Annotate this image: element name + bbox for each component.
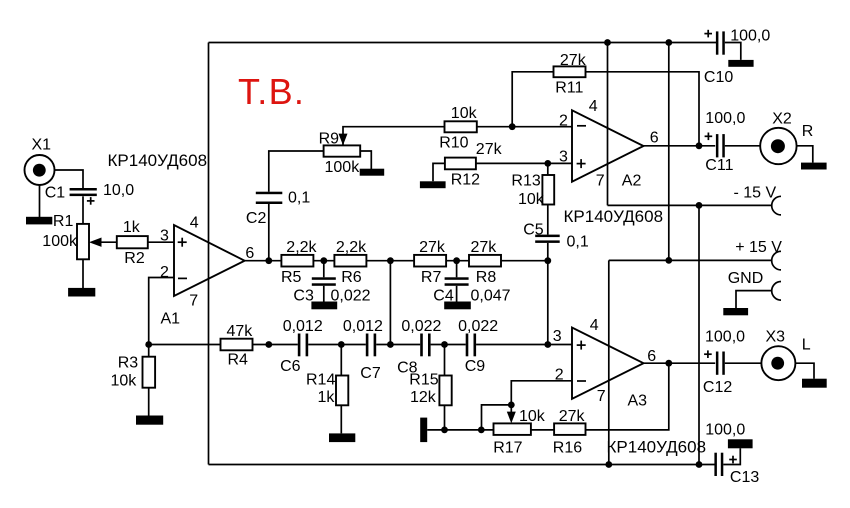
svg-text:7: 7 xyxy=(189,293,198,310)
svg-text:27k: 27k xyxy=(476,141,503,158)
wire R11 left to pin 2 node xyxy=(512,72,553,127)
svg-text:R13: R13 xyxy=(511,172,540,189)
capacitor C7 xyxy=(343,318,383,382)
junction -15V rail / C13 node xyxy=(696,461,703,468)
junction top rail / +15V branch xyxy=(665,39,672,46)
junction R17 wiper / A3 pin2 xyxy=(508,402,515,409)
resistor R13 xyxy=(511,172,554,208)
svg-text:4: 4 xyxy=(190,215,199,232)
svg-text:R11: R11 xyxy=(555,80,583,97)
svg-text:Т.В.: Т.В. xyxy=(238,71,305,112)
wire R17 to R16 xyxy=(531,429,554,431)
svg-text:- 15 V: - 15 V xyxy=(734,185,777,202)
svg-text:10,0: 10,0 xyxy=(103,182,134,199)
junction -15V line xyxy=(696,202,703,209)
wire C5 to upper chain node xyxy=(547,243,549,261)
ground X3 xyxy=(802,379,827,388)
wire R2 to A1 pin 3 xyxy=(148,241,174,243)
op-amp A2 xyxy=(559,98,659,189)
resistor R3 xyxy=(111,355,156,390)
ground X2 xyxy=(801,163,827,170)
svg-text:7: 7 xyxy=(597,388,606,405)
junction upper chain mid node xyxy=(387,257,394,264)
svg-text:100,0: 100,0 xyxy=(705,329,745,346)
svg-text:R1: R1 xyxy=(53,213,74,230)
wire C7 to C8 xyxy=(376,344,420,346)
svg-text:R10: R10 xyxy=(439,135,468,152)
wire node A1 out to C2 xyxy=(268,204,270,261)
svg-text:0,1: 0,1 xyxy=(567,233,589,250)
resistor R12 xyxy=(445,141,503,189)
wire C1 to R1 xyxy=(82,196,84,224)
junction R5-R6 / C3 node xyxy=(320,257,327,264)
svg-text:C1: C1 xyxy=(45,185,66,202)
svg-text:+ 15 V: + 15 V xyxy=(735,239,782,256)
connector -15V xyxy=(734,185,782,215)
wire A2 pin4 pin7 vertical xyxy=(607,43,609,206)
svg-text:0,047: 0,047 xyxy=(471,288,511,305)
junction C6-C7 / R14 node xyxy=(338,341,345,348)
wire R5 to R6 xyxy=(313,260,334,262)
svg-text:0,022: 0,022 xyxy=(401,318,441,335)
svg-text:2,2k: 2,2k xyxy=(336,239,367,256)
svg-text:0,012: 0,012 xyxy=(283,318,323,335)
svg-text:КР140УД608: КР140УД608 xyxy=(607,437,707,456)
wire A2 output to C11 xyxy=(644,145,716,147)
svg-text:100k: 100k xyxy=(325,159,361,176)
wire A3 pin4 pin7 vertical xyxy=(608,260,610,464)
junction R17 left terminal xyxy=(478,427,485,434)
op-amp A1 xyxy=(160,215,254,328)
wire R17 wiper tie xyxy=(482,405,512,430)
capacitor C1 xyxy=(45,182,135,205)
svg-text:10k: 10k xyxy=(111,373,138,390)
capacitor C8 xyxy=(397,318,441,377)
wire C6 to C7 xyxy=(308,344,366,346)
ground C3 xyxy=(311,302,337,310)
wire R3 to ground xyxy=(148,345,150,416)
wire C5 R13 vertical xyxy=(547,163,549,234)
capacitor C10 xyxy=(704,28,770,86)
resistor R14 xyxy=(306,371,348,406)
wire R2 to R1 wiper xyxy=(101,241,117,243)
wire upper chain node to A3 pin3 node xyxy=(547,261,549,345)
connector +15V xyxy=(735,239,782,270)
junction C7-C8 mid node xyxy=(387,341,394,348)
potentiometer R1 xyxy=(42,213,101,259)
svg-text:47k: 47k xyxy=(227,323,254,340)
capacitor C2 xyxy=(246,190,310,227)
svg-text:R2: R2 xyxy=(124,250,145,267)
wire R16 to A3 output xyxy=(586,363,669,430)
svg-text:A2: A2 xyxy=(622,172,642,189)
svg-text:R3: R3 xyxy=(118,355,139,372)
svg-text:10k: 10k xyxy=(451,105,478,122)
svg-text:100k: 100k xyxy=(42,233,78,250)
capacitor C11 xyxy=(705,110,746,174)
svg-text:C7: C7 xyxy=(360,365,381,382)
ground C4 xyxy=(444,302,471,310)
connector GND xyxy=(728,270,781,300)
wire C4 to ground xyxy=(456,286,458,302)
wire X3 to ground xyxy=(795,363,814,379)
svg-text:100,0: 100,0 xyxy=(705,422,745,439)
ground R1 xyxy=(68,288,95,297)
svg-text:4: 4 xyxy=(590,317,599,334)
svg-text:C2: C2 xyxy=(246,210,267,227)
svg-text:GND: GND xyxy=(728,270,764,287)
wire ground bar to R17 feedback line xyxy=(427,429,493,431)
junction A1 output / C2 node xyxy=(265,257,272,264)
wire C3 to ground xyxy=(323,286,325,302)
wire -15V rail down xyxy=(698,205,700,464)
svg-text:R16: R16 xyxy=(553,439,582,456)
capacitor C3 xyxy=(293,277,370,304)
svg-text:R12: R12 xyxy=(451,171,480,188)
svg-text:0,012: 0,012 xyxy=(343,318,383,335)
wire X1 to ground xyxy=(39,185,41,217)
svg-text:0,1: 0,1 xyxy=(288,190,310,207)
wire lower chain R4 to C6 xyxy=(149,344,298,346)
wire upper chain to lower chain xyxy=(389,261,391,345)
svg-text:C9: C9 xyxy=(465,358,486,375)
connector X2 xyxy=(760,110,813,164)
svg-text:0,022: 0,022 xyxy=(458,318,498,335)
resistor R11 xyxy=(554,52,587,97)
wire GND connector to ground xyxy=(736,291,772,308)
wire X2 to ground xyxy=(796,146,812,163)
wire R6 to R7 xyxy=(366,260,414,262)
resistor R4 xyxy=(221,323,254,368)
junction A1 pin2 / R3 node xyxy=(145,341,152,348)
svg-text:C11: C11 xyxy=(705,157,733,174)
wire C4 branch xyxy=(456,261,458,278)
ground R3 xyxy=(136,416,163,425)
junction C9 / A3 pin3 node xyxy=(544,341,551,348)
wire C11 to X2 xyxy=(725,145,761,147)
wire R7 to R8 xyxy=(446,260,469,262)
svg-text:27k: 27k xyxy=(559,408,586,425)
svg-text:L: L xyxy=(802,336,811,353)
resistor R7 xyxy=(414,239,446,286)
capacitor C13 xyxy=(705,422,759,486)
junction A3 pin7 / -15V rail xyxy=(605,461,612,468)
junction A3 output / R16 feedback xyxy=(665,360,672,367)
resistor R5 xyxy=(281,239,318,286)
junction C8-C9 / R15 node xyxy=(441,341,448,348)
svg-text:10k: 10k xyxy=(518,191,545,208)
svg-text:R: R xyxy=(802,123,814,140)
svg-text:1k: 1k xyxy=(318,389,336,406)
junction +15V line xyxy=(665,257,672,264)
ground GND connector xyxy=(723,308,748,315)
connector X1 xyxy=(25,137,55,185)
svg-text:X1: X1 xyxy=(32,137,52,154)
wire C12 to X3 xyxy=(725,362,762,364)
ground R12 xyxy=(420,181,446,188)
svg-text:КР140УД608: КР140УД608 xyxy=(564,207,664,226)
wire C2 to R9 xyxy=(269,151,324,192)
ground C13 xyxy=(728,439,753,448)
wire R14 to ground xyxy=(340,345,342,434)
svg-text:27k: 27k xyxy=(419,239,446,256)
junction A2 output / R11 feedback xyxy=(696,142,703,149)
junction R7-R8 / C4 node xyxy=(453,257,460,264)
potentiometer R9 xyxy=(319,131,361,176)
svg-text:2,2k: 2,2k xyxy=(286,239,317,256)
svg-text:R6: R6 xyxy=(341,269,362,286)
wire C9 to A3 pin 3 xyxy=(476,344,572,346)
svg-text:C13: C13 xyxy=(730,469,759,486)
junction R15 bottom node xyxy=(441,427,448,434)
wire +15V line xyxy=(609,259,772,261)
capacitor C12 xyxy=(703,329,745,397)
svg-text:4: 4 xyxy=(589,98,598,115)
svg-text:A1: A1 xyxy=(161,311,181,328)
svg-text:R7: R7 xyxy=(421,269,442,286)
svg-text:27k: 27k xyxy=(560,52,587,69)
svg-text:R14: R14 xyxy=(306,371,335,388)
svg-text:C12: C12 xyxy=(703,379,732,396)
capacitor C4 xyxy=(433,277,510,304)
ground C10 xyxy=(728,60,753,67)
ground X1 xyxy=(26,217,52,225)
wire R17 wiper to A3 pin 2 xyxy=(511,381,572,405)
wire R1 to ground xyxy=(82,259,84,288)
svg-text:C5: C5 xyxy=(523,222,544,239)
svg-text:6: 6 xyxy=(650,130,659,147)
wire X1 to C1 xyxy=(55,170,84,189)
svg-text:X3: X3 xyxy=(766,328,786,345)
ground R9 xyxy=(360,169,385,176)
wire A1 output to R5 xyxy=(245,260,282,262)
resistor R8 xyxy=(469,239,501,286)
resistor R2 xyxy=(117,219,148,267)
svg-text:R15: R15 xyxy=(409,371,438,388)
junction A2 pin2 / R11 node xyxy=(509,123,516,130)
svg-text:X2: X2 xyxy=(772,110,792,127)
svg-text:6: 6 xyxy=(245,245,254,262)
wire +15V vertical from top rail xyxy=(668,43,670,261)
ground bar vertical at R17 line xyxy=(420,418,427,443)
svg-text:100,0: 100,0 xyxy=(730,28,770,45)
capacitor C6 xyxy=(280,318,323,375)
svg-text:27k: 27k xyxy=(471,239,498,256)
ground R14 xyxy=(329,433,355,442)
wire C10 to ground xyxy=(725,43,741,60)
svg-text:1k: 1k xyxy=(123,219,141,236)
wire C8 to C9 xyxy=(431,344,466,346)
svg-text:10k: 10k xyxy=(519,408,546,425)
svg-text:C10: C10 xyxy=(704,69,733,86)
wire R10 to A2 pin 2 xyxy=(477,126,572,128)
svg-text:12k: 12k xyxy=(410,389,437,406)
wire A1 pin 2 xyxy=(149,278,174,345)
op-amp A3 xyxy=(553,317,657,409)
svg-text:C6: C6 xyxy=(280,358,301,375)
wire -15V bottom rail xyxy=(209,464,716,466)
capacitor C9 xyxy=(458,318,498,375)
potentiometer R17 xyxy=(493,408,546,456)
svg-text:C3: C3 xyxy=(293,288,314,305)
wire +15V top rail xyxy=(209,42,717,44)
wire C13 to ground xyxy=(723,448,740,464)
wire R11 right to A2 output node xyxy=(586,72,700,146)
wire -15V line xyxy=(608,204,772,206)
wire R8 to C5 node xyxy=(501,260,548,262)
wire A3 output to C12 xyxy=(644,362,716,364)
capacitor C5 xyxy=(523,222,589,251)
resistor R15 xyxy=(409,371,451,406)
svg-text:КР140УД608: КР140УД608 xyxy=(108,151,208,170)
wire R12 to A2 pin 3 xyxy=(475,162,572,164)
connector X3 xyxy=(761,328,810,380)
junction top rail / A2 pin4 xyxy=(604,39,611,46)
svg-text:R5: R5 xyxy=(281,269,302,286)
junction C5 / R8 node xyxy=(544,257,551,264)
svg-text:A3: A3 xyxy=(628,392,648,409)
junction R4-C6 node xyxy=(265,341,272,348)
wire R12 left to ground xyxy=(433,163,445,181)
junction A2 pin3 / R13 node xyxy=(544,160,551,167)
wire R9 right to ground xyxy=(360,151,371,169)
resistor R16 xyxy=(553,408,586,456)
svg-text:3: 3 xyxy=(553,328,562,345)
wire R15 branch xyxy=(444,345,446,430)
resistor R6 xyxy=(334,239,367,286)
wire left rail through A1 pins 4 and 7 xyxy=(208,43,210,465)
resistor R10 xyxy=(439,105,477,151)
wire C3 branch xyxy=(323,261,325,278)
svg-text:100,0: 100,0 xyxy=(705,110,745,127)
svg-text:7: 7 xyxy=(596,172,605,189)
wire R9 wiper to R10 xyxy=(343,127,445,145)
svg-text:R17: R17 xyxy=(493,439,522,456)
svg-text:R4: R4 xyxy=(228,351,249,368)
svg-text:R8: R8 xyxy=(476,269,497,286)
svg-text:R9: R9 xyxy=(319,131,340,148)
